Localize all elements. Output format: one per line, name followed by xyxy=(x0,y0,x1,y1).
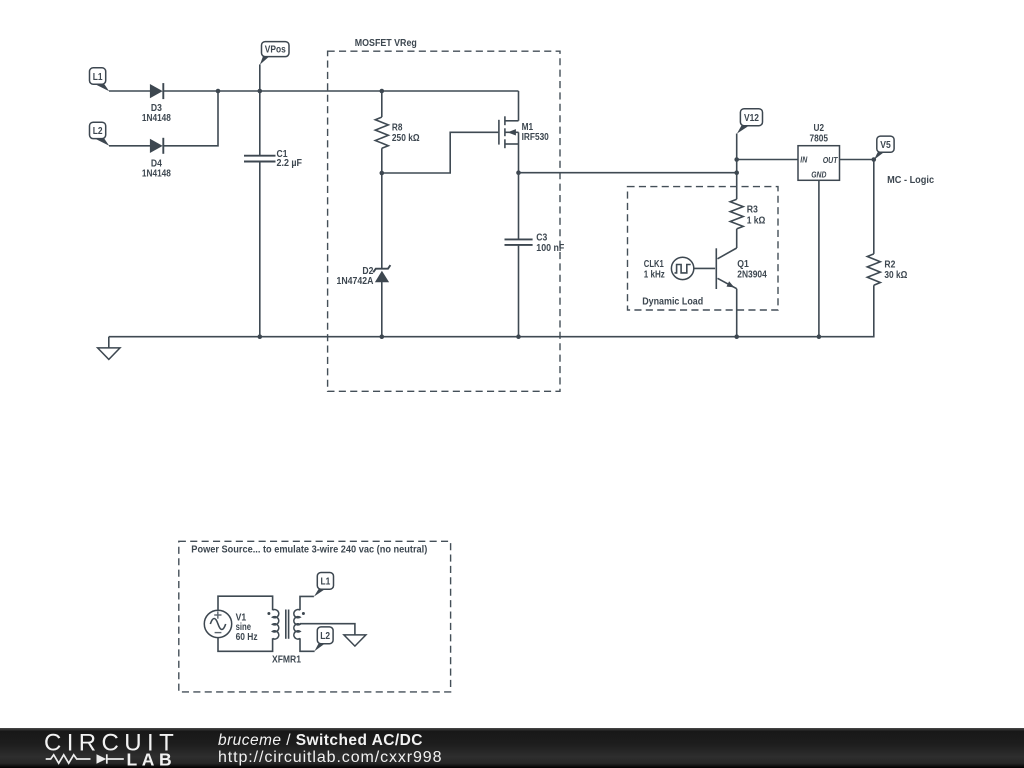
svg-text:60 Hz: 60 Hz xyxy=(236,632,258,643)
svg-text:1N4148: 1N4148 xyxy=(142,113,171,124)
wire V12 down to R3 xyxy=(736,134,738,200)
svg-text:IN: IN xyxy=(800,155,808,165)
svg-text:1 kΩ: 1 kΩ xyxy=(747,215,766,226)
svg-text:Power Source... to emulate 3-w: Power Source... to emulate 3-wire 240 va… xyxy=(191,545,427,556)
wire CLK1 to Q1 base xyxy=(694,267,715,269)
clock source CLK1 1kHz xyxy=(644,257,694,280)
svg-text:Q1: Q1 xyxy=(737,259,749,270)
wire U2 GND to ground rail xyxy=(818,180,820,336)
flag L1 bottom xyxy=(314,573,334,597)
dashed box Dynamic Load xyxy=(628,187,779,310)
svg-text:L2: L2 xyxy=(320,631,330,642)
svg-text:7805: 7805 xyxy=(810,133,829,144)
junction Q1 / rail xyxy=(734,334,739,339)
wire source node to V12 node xyxy=(519,172,737,174)
wire L1 to D3 xyxy=(109,90,150,92)
wire D2 to ground rail xyxy=(381,282,383,337)
transformer XFMR1 xyxy=(267,610,305,666)
diode D3 1N4148 xyxy=(142,83,171,124)
svg-text:D2: D2 xyxy=(362,266,373,277)
svg-text:L2: L2 xyxy=(93,126,103,137)
CircuitLab logo resistor-diode glyph xyxy=(46,755,124,763)
junction V12 / source wire xyxy=(734,170,739,175)
wire C1 to ground rail xyxy=(259,162,261,337)
svg-text:V5: V5 xyxy=(880,140,891,151)
capacitor C3 100nF xyxy=(505,173,565,337)
junction U2 GND / rail xyxy=(817,334,822,339)
flag V12 xyxy=(737,109,763,134)
junction V5 node xyxy=(872,157,877,162)
dashed box MOSFET VReg xyxy=(328,51,560,391)
svg-text:L1: L1 xyxy=(321,577,331,588)
svg-text:MOSFET VReg: MOSFET VReg xyxy=(355,38,417,49)
wire secondary bottom to L2 xyxy=(300,638,315,651)
ground rail xyxy=(109,336,819,338)
voltage source V1 sine 60Hz xyxy=(204,610,257,643)
svg-text:1N4148: 1N4148 xyxy=(142,168,171,179)
svg-text:http://circuitlab.com/cxxr998: http://circuitlab.com/cxxr998 xyxy=(218,749,442,766)
flag L2 xyxy=(90,122,110,146)
wire V1 top to primary xyxy=(218,596,273,610)
wire V1 bottom to primary xyxy=(218,638,273,652)
svg-text:R3: R3 xyxy=(747,205,759,216)
svg-text:2.2 µF: 2.2 µF xyxy=(277,158,303,169)
svg-text:30 kΩ: 30 kΩ xyxy=(884,270,907,281)
svg-text:2N3904: 2N3904 xyxy=(737,270,767,281)
junction gate node xyxy=(380,171,385,176)
svg-text:OUT: OUT xyxy=(823,155,839,165)
flag V5 xyxy=(874,136,894,160)
wire U2 OUT to V5 node xyxy=(840,159,874,161)
svg-text:CLK1: CLK1 xyxy=(644,259,664,270)
wire U2 IN xyxy=(737,159,798,161)
svg-text:100 nF: 100 nF xyxy=(536,243,564,254)
resistor R2 30k xyxy=(867,254,907,285)
dashed box Power Source xyxy=(179,541,451,692)
junction C3 / rail xyxy=(516,334,521,339)
wire R3 to Q1 collector xyxy=(736,229,738,248)
capacitor C1 2.2uF xyxy=(244,149,302,169)
resistor R3 1k xyxy=(730,199,765,229)
wire D4 up to node xyxy=(163,91,218,146)
junction D2 / rail xyxy=(380,334,385,339)
regulator U2 7805 xyxy=(798,123,840,180)
junction R8 top xyxy=(380,89,385,94)
transistor Q1 2N3904 xyxy=(716,248,767,337)
junction D3/D4 xyxy=(216,89,221,94)
flag L1 xyxy=(90,68,110,91)
mosfet M1 IRF530 xyxy=(499,91,549,173)
svg-text:L1: L1 xyxy=(93,72,103,83)
svg-text:Dynamic Load: Dynamic Load xyxy=(642,297,703,308)
svg-text:IRF530: IRF530 xyxy=(522,132,550,143)
junction M1 source node xyxy=(516,170,521,175)
wire L2 to D4 xyxy=(109,145,150,147)
svg-text:R2: R2 xyxy=(884,260,895,271)
wire R2 to ground rail xyxy=(819,285,874,337)
wire gate node to M1 gate xyxy=(382,132,499,173)
svg-text:GND: GND xyxy=(811,170,826,180)
svg-text:1N4742A: 1N4742A xyxy=(337,276,374,287)
wire secondary top to L1 xyxy=(300,596,314,610)
svg-text:250 kΩ: 250 kΩ xyxy=(392,133,420,144)
svg-text:MC - Logic: MC - Logic xyxy=(887,175,934,186)
junction V12 / U2 IN xyxy=(734,157,739,162)
flag VPos xyxy=(260,42,289,65)
wire to R8 xyxy=(381,91,383,117)
diode D4 1N4148 xyxy=(142,138,171,180)
zener diode D2 1N4742A xyxy=(337,265,391,287)
wire D3 to MOSFET drain (top rail) xyxy=(163,90,518,92)
svg-text:bruceme / Switched AC/DC: bruceme / Switched AC/DC xyxy=(218,732,423,749)
ground symbol xyxy=(98,337,120,360)
flag L2 bottom xyxy=(314,627,333,651)
ground symbol power box xyxy=(344,635,366,646)
resistor R8 250k xyxy=(375,117,419,148)
svg-text:C3: C3 xyxy=(536,233,547,244)
wire VPos to C1 xyxy=(259,64,261,155)
svg-text:V12: V12 xyxy=(744,113,759,124)
wire R8 to gate node and D2 xyxy=(381,148,383,269)
wire secondary center tap to ground xyxy=(300,624,355,635)
junction VPos node xyxy=(258,89,263,94)
svg-text:1 kHz: 1 kHz xyxy=(644,269,665,280)
svg-text:XFMR1: XFMR1 xyxy=(272,654,301,665)
svg-text:VPos: VPos xyxy=(265,45,286,56)
svg-text:LAB: LAB xyxy=(127,749,177,768)
junction C1 / rail xyxy=(258,334,263,339)
wire V5 node to R2 xyxy=(873,160,875,254)
